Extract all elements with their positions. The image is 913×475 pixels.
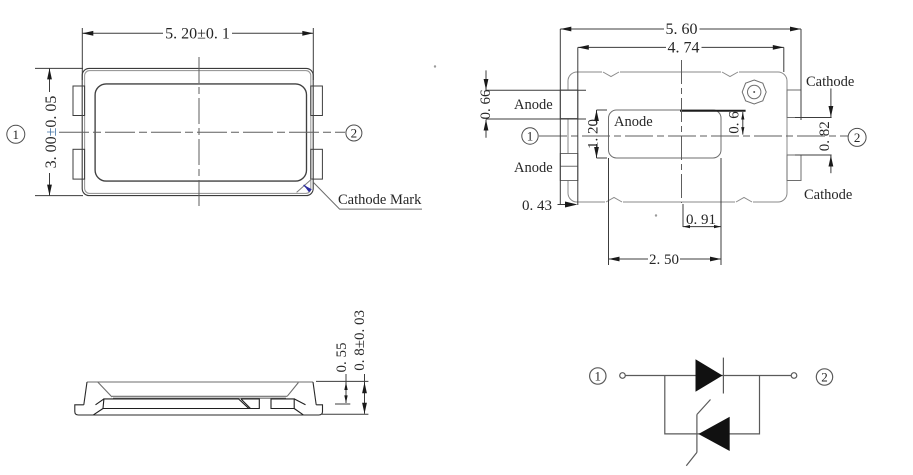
svg-text:5. 20±0. 1: 5. 20±0. 1 [165, 26, 230, 43]
svg-text:Anode: Anode [514, 97, 553, 113]
svg-text:0. 6: 0. 6 [727, 111, 743, 134]
svg-text:0. 8±0. 03: 0. 8±0. 03 [352, 310, 368, 371]
svg-text:0. 66: 0. 66 [478, 89, 494, 120]
svg-text:Cathode: Cathode [806, 74, 854, 90]
svg-text:Anode: Anode [514, 160, 553, 176]
svg-text:0. 55: 0. 55 [334, 343, 350, 373]
svg-text:1: 1 [13, 127, 20, 142]
svg-text:2: 2 [351, 126, 358, 141]
svg-text:1: 1 [595, 369, 602, 384]
svg-text:2. 50: 2. 50 [649, 252, 679, 268]
svg-text:0. 82: 0. 82 [817, 121, 833, 151]
svg-text:1. 20: 1. 20 [586, 119, 602, 149]
svg-text:2: 2 [821, 370, 828, 385]
svg-text:Anode: Anode [614, 114, 653, 130]
svg-text:1: 1 [527, 129, 534, 144]
svg-text:2: 2 [854, 130, 861, 145]
svg-text:3. 00±0. 05: 3. 00±0. 05 [43, 96, 60, 169]
svg-text:4. 74: 4. 74 [668, 39, 700, 56]
svg-text:0. 91: 0. 91 [686, 212, 716, 228]
svg-text:0. 43: 0. 43 [522, 198, 552, 214]
svg-text:5. 60: 5. 60 [666, 21, 698, 38]
svg-text:Cathode Mark: Cathode Mark [338, 192, 422, 208]
svg-text:Cathode: Cathode [804, 187, 852, 203]
